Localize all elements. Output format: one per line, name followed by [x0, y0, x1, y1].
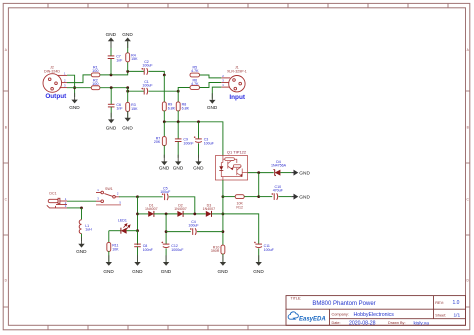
wire Q1 base node to R12	[223, 196, 235, 198]
wire Q1 base node vertical to R10	[222, 180, 224, 245]
wire bottom row to C6	[110, 88, 112, 105]
wire R11 to LED1 cathode	[109, 230, 121, 232]
svg-text:100: 100	[92, 82, 98, 86]
svg-text:15K: 15K	[131, 107, 138, 111]
junction bus / C3	[197, 120, 200, 123]
svg-text:kisly.va: kisly.va	[414, 320, 430, 326]
resistor R3	[126, 102, 130, 111]
resistor R7	[162, 137, 166, 146]
svg-text:1N4007: 1N4007	[145, 207, 158, 211]
ground under R7	[159, 155, 170, 171]
capacitor C12	[162, 242, 170, 248]
wire R5 to J1 pin2	[200, 75, 222, 78]
svg-text:REV:: REV:	[435, 301, 444, 305]
capacitor C7	[108, 56, 115, 59]
svg-text:XLR-329P-1: XLR-329P-1	[227, 69, 247, 73]
wire R11 to GND	[108, 251, 110, 262]
wire C10 to GND port	[279, 196, 292, 198]
ground under J2	[69, 93, 80, 110]
svg-text:SW1: SW1	[105, 187, 113, 191]
wire R7 to GND	[163, 145, 165, 158]
wire C7 to top row	[110, 59, 112, 75]
ground under L1	[76, 237, 87, 254]
wire DC1 tip to SW1	[67, 200, 96, 202]
capacitor C10	[272, 193, 278, 200]
svg-text:Input: Input	[229, 94, 245, 101]
resistor R6	[190, 86, 200, 90]
junction L1 node	[80, 207, 83, 210]
wire bottom row to R8	[177, 91, 179, 102]
wire bus to C3	[198, 122, 200, 139]
wire C7 to GND	[110, 42, 112, 56]
svg-text:4.7K: 4.7K	[191, 69, 199, 73]
wire R9 to bus	[163, 111, 165, 122]
wire D4 to GND port	[280, 172, 291, 174]
svg-text:GND: GND	[69, 105, 80, 110]
svg-text:Sheet:: Sheet:	[435, 313, 446, 317]
svg-text:HobbyElectronics: HobbyElectronics	[354, 312, 395, 318]
EasyEDA logo	[288, 312, 326, 322]
svg-text:GND: GND	[161, 269, 172, 274]
capacitor C2	[142, 68, 148, 75]
wire D1/D2 node down through C4 row to C12	[165, 214, 167, 244]
wire LED1 anode to switched node	[127, 230, 138, 232]
ground above R4	[122, 32, 133, 48]
connector J1 XLR-329P-1 (Input)	[221, 76, 245, 92]
capacitor C4	[190, 228, 196, 235]
wire R6 to J1 pin3	[200, 83, 222, 88]
wire switched node down to C8	[137, 197, 139, 245]
wire C12 to GND	[165, 248, 167, 261]
ground under J1	[207, 93, 218, 110]
wire R8 to bus	[177, 111, 179, 122]
diode D1 1N4007	[148, 211, 154, 217]
wire D1 to D2	[154, 213, 178, 215]
svg-text:Output: Output	[45, 93, 67, 100]
ground under R3	[122, 111, 133, 131]
wire C5 to D2/D3 junction	[169, 197, 195, 214]
svg-text:100uF: 100uF	[188, 224, 199, 228]
junction jog / C1 branch	[126, 90, 129, 93]
diode D2 1N4007	[177, 211, 183, 217]
wire DC1 sleeve to L1 node	[67, 207, 82, 209]
junction D4 node	[257, 171, 260, 174]
wire bus to C9	[177, 122, 179, 139]
resistor R4	[126, 53, 130, 62]
svg-text:GND: GND	[217, 269, 228, 274]
wire R4 to top row	[127, 61, 129, 71]
svg-text:GND: GND	[173, 165, 184, 170]
junction C4 row / base node	[222, 230, 225, 233]
junction C10 node	[257, 195, 260, 198]
svg-text:100nF: 100nF	[183, 141, 194, 145]
svg-text:100uF: 100uF	[160, 190, 171, 194]
GND net port at D4	[291, 170, 310, 177]
svg-text:20K: 20K	[154, 140, 161, 144]
capacitor C11	[254, 242, 262, 248]
wire D2 to D3	[183, 213, 206, 215]
junction bottom row / C6	[110, 86, 113, 89]
svg-text:B: B	[467, 126, 469, 130]
wire C6 to GND	[110, 107, 112, 118]
wire C1 to R8 junction	[149, 90, 179, 92]
resistor R8	[176, 102, 180, 111]
svg-text:100nF: 100nF	[143, 248, 154, 252]
wire R10 to GND	[222, 254, 224, 262]
junction D1/D2 node	[165, 213, 168, 216]
ground under C11	[253, 255, 264, 274]
svg-text:4.7K: 4.7K	[191, 82, 199, 86]
svg-text:Drawn By:: Drawn By:	[388, 321, 406, 325]
junction D2/D3 node	[193, 213, 196, 216]
svg-text:EasyEDA: EasyEDA	[299, 316, 326, 322]
wire C4 to base node	[197, 231, 223, 233]
wire C10 node to C10	[259, 196, 273, 198]
wire top row to R9	[163, 75, 165, 102]
svg-text:R12: R12	[236, 205, 243, 209]
svg-text:1N4756A: 1N4756A	[271, 164, 287, 168]
svg-text:GND: GND	[106, 32, 117, 37]
wire C11 to GND	[258, 248, 260, 261]
junction bottom row / R8	[177, 90, 180, 93]
wire LED row to C8	[137, 231, 139, 244]
svg-text:100uF: 100uF	[142, 84, 153, 88]
svg-text:6.8K: 6.8K	[182, 106, 190, 110]
svg-text:GND: GND	[299, 194, 310, 200]
junction J2 ground node	[73, 86, 76, 89]
resistor R10	[221, 245, 225, 254]
svg-text:390R: 390R	[211, 249, 220, 253]
capacitor C3	[194, 136, 202, 142]
junction top row / C7	[110, 74, 113, 77]
resistor R12	[235, 195, 244, 199]
svg-text:1uH: 1uH	[85, 228, 92, 232]
ground under R10	[217, 255, 228, 274]
junction bottom row / R3	[126, 86, 129, 89]
wire J2 pin1 to GND rail	[67, 75, 75, 97]
ground above C7	[106, 32, 117, 48]
svg-text:1000uF: 1000uF	[171, 248, 184, 252]
svg-text:100uF: 100uF	[142, 64, 153, 68]
svg-text:GND: GND	[106, 125, 117, 130]
capacitor C5	[162, 193, 168, 200]
svg-text:1nF: 1nF	[116, 58, 123, 62]
wire R2 to R3 junction (bottom signal row)	[100, 87, 128, 89]
wire supply bus to Q1 collector	[164, 122, 223, 156]
LED1 (cathode left)	[121, 228, 127, 234]
wire bottom row to R3	[127, 88, 129, 103]
svg-text:10K: 10K	[112, 247, 119, 251]
wire J2 pin2 to R1	[67, 75, 91, 83]
svg-text:DC1: DC1	[49, 192, 56, 196]
inductor L1 1uH	[79, 220, 81, 234]
junction top row / R4	[126, 70, 129, 73]
svg-text:1.0: 1.0	[453, 300, 460, 306]
wire D4 node down to C10 node	[258, 173, 260, 197]
svg-text:TITLE:: TITLE:	[291, 296, 302, 300]
wire D3 to C11	[212, 214, 259, 244]
svg-text:1N4007: 1N4007	[203, 207, 216, 211]
svg-text:GND: GND	[193, 165, 204, 170]
ground under C8	[132, 255, 143, 274]
ground under C9	[173, 155, 184, 171]
svg-text:Date:: Date:	[332, 321, 341, 325]
ground under R11	[103, 255, 114, 274]
wire C2 to R5 row	[149, 71, 165, 75]
svg-text:GND: GND	[103, 269, 114, 274]
svg-text:1nF: 1nF	[116, 107, 123, 111]
svg-text:LED1: LED1	[118, 218, 127, 222]
wire R4 to GND	[127, 42, 129, 53]
wire R1 to C2 (top signal row with jog)	[100, 71, 144, 75]
capacitor C6	[108, 104, 115, 107]
wire C3 to GND	[198, 143, 200, 158]
ground under C6	[106, 113, 117, 131]
svg-text:Company:: Company:	[332, 313, 349, 317]
diode D3 1N4007	[206, 211, 212, 217]
capacitor C8	[134, 244, 141, 247]
wire J1 pin1 to GND	[212, 87, 221, 99]
capacitor C9	[175, 139, 182, 142]
wire R12 to C10 node	[244, 196, 259, 198]
connector J2 DIN-324D (Output)	[43, 74, 67, 93]
svg-text:6.8K: 6.8K	[168, 106, 176, 110]
svg-text:GND: GND	[76, 249, 87, 254]
wire bus to R7	[163, 122, 165, 137]
capacitor C1	[142, 88, 148, 95]
svg-text:1/1: 1/1	[454, 313, 461, 319]
svg-text:B: B	[5, 126, 7, 130]
title block	[286, 296, 466, 326]
svg-text:GND: GND	[122, 126, 133, 131]
junction diode row / base node	[222, 213, 225, 216]
wire jog up to R6	[178, 88, 190, 92]
junction bus / R9 R7	[163, 120, 166, 123]
wire J2 pin3 to R2	[67, 87, 91, 89]
svg-text:Q1 TIP122: Q1 TIP122	[227, 149, 247, 154]
svg-text:DIN-324D: DIN-324D	[44, 69, 60, 73]
svg-text:100uF: 100uF	[204, 141, 215, 145]
svg-text:BM800 Phantom Power: BM800 Phantom Power	[312, 301, 375, 307]
wire L1 to GND	[81, 234, 83, 241]
resistor R9	[162, 102, 166, 111]
junction switched supply node	[136, 195, 139, 198]
junction diode row start	[136, 213, 139, 216]
wire C8 to GND	[137, 247, 139, 262]
wire C9 to GND	[177, 142, 179, 158]
svg-text:GND: GND	[122, 32, 133, 37]
svg-text:15K: 15K	[131, 57, 138, 61]
junction top row / R9	[163, 74, 166, 77]
resistor R2	[91, 86, 100, 90]
svg-text:GND: GND	[207, 105, 218, 110]
svg-text:470uF: 470uF	[273, 189, 284, 193]
junction bus / R8 C9	[177, 120, 180, 123]
wire switched node to C5	[138, 196, 163, 198]
wire SW1 to switched node	[119, 196, 138, 198]
junction C4 row	[165, 230, 168, 233]
svg-text:100uF: 100uF	[264, 248, 275, 252]
resistor R1	[91, 73, 100, 77]
resistor R5	[190, 73, 200, 77]
wire L1 node down to L1	[81, 208, 83, 220]
svg-text:100: 100	[92, 69, 98, 73]
svg-text:GND: GND	[159, 165, 170, 170]
zener diode D4 1N4756A (cathode left)	[273, 170, 280, 176]
ground under C12	[161, 255, 172, 274]
wire bottom row jog to C1	[128, 88, 145, 92]
svg-text:2020-08-28: 2020-08-28	[349, 320, 376, 326]
wire Q1 emitter to D4	[248, 172, 274, 174]
svg-text:GND: GND	[299, 170, 310, 176]
wire R3 to GND	[127, 111, 129, 118]
wire to C4	[166, 231, 191, 233]
ground under C3	[193, 155, 204, 171]
GND net port at C10	[291, 194, 310, 201]
wire LED row down to R11	[108, 231, 110, 243]
resistor R11	[107, 242, 111, 251]
wire to D1 anode	[138, 213, 149, 215]
junction Q1 base node / R12	[222, 195, 225, 198]
svg-text:GND: GND	[253, 269, 264, 274]
svg-text:GND: GND	[132, 269, 143, 274]
junction LED row / C8	[136, 229, 139, 232]
svg-text:1N4007: 1N4007	[174, 207, 187, 211]
